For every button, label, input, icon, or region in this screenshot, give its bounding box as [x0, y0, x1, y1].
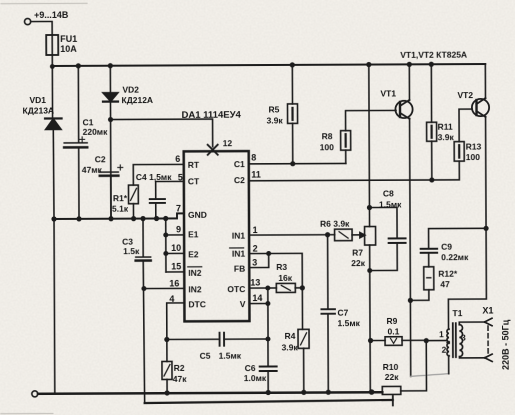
svg-text:R3: R3 [276, 262, 287, 272]
pin number labels right [250, 153, 263, 304]
svg-text:C9: C9 [441, 242, 452, 252]
svg-text:E2: E2 [188, 249, 199, 259]
svg-text:FU1: FU1 [60, 34, 77, 44]
capacitor C2 47мк [82, 154, 123, 219]
resistor R4 3.9к [281, 288, 309, 395]
svg-text:FB: FB [234, 264, 245, 274]
svg-text:R6 3.9к: R6 3.9к [320, 219, 350, 229]
svg-text:C7: C7 [337, 308, 348, 318]
svg-text:C5: C5 [200, 351, 211, 361]
svg-text:1.5мк: 1.5мк [379, 199, 402, 209]
svg-text:R2: R2 [174, 363, 185, 373]
wire pin 1 IN1 line [249, 234, 334, 236]
capacitor C7 1.5мк [321, 232, 361, 395]
svg-text:E1: E1 [188, 229, 199, 239]
svg-text:1: 1 [253, 225, 258, 235]
svg-text:3: 3 [461, 333, 466, 343]
wire pin 4 DTC column [164, 303, 184, 342]
resistor R7 22к (adjustable) [350, 62, 376, 395]
transistor VT1 [380, 62, 413, 301]
wire VT2 emitter down to transformer [448, 228, 486, 329]
svg-text:16к: 16к [278, 273, 292, 283]
svg-text:VD1: VD1 [29, 95, 46, 105]
wire second bottom rail [145, 396, 393, 407]
svg-text:VD2: VD2 [122, 85, 139, 95]
svg-text:0.22мк: 0.22мк [441, 252, 469, 262]
svg-text:R1*: R1* [113, 193, 128, 203]
svg-text:220В - 50Гц: 220В - 50Гц [500, 319, 510, 370]
svg-text:3.9к: 3.9к [267, 115, 284, 125]
resistor R13 100 [432, 109, 482, 180]
capacitor C6 1.0мк [244, 336, 277, 395]
resistor R11 3.9к [426, 62, 454, 183]
wire pins 2,3 bracket [249, 251, 302, 288]
svg-text:VT2: VT2 [457, 90, 473, 100]
svg-text:R12*: R12* [438, 269, 458, 279]
svg-text:C1: C1 [234, 159, 245, 169]
svg-text:КД212А: КД212А [121, 95, 153, 105]
resistor R2 47к [162, 339, 187, 395]
svg-text:5.1к: 5.1к [112, 204, 129, 214]
svg-text:C2: C2 [234, 175, 245, 185]
svg-text:1.5мк: 1.5мк [337, 318, 360, 328]
svg-text:100: 100 [466, 152, 480, 162]
svg-text:13: 13 [250, 278, 260, 288]
resistor R10 22к [382, 341, 426, 395]
svg-text:47мк: 47мк [82, 165, 103, 175]
fuse FU1 10A [46, 34, 77, 67]
svg-text:OTC: OTC [227, 284, 245, 294]
svg-text:GND: GND [188, 210, 207, 220]
svg-text:R5: R5 [268, 104, 279, 114]
svg-text:DTC: DTC [188, 299, 206, 309]
svg-text:R8: R8 [322, 131, 333, 141]
svg-text:15: 15 [171, 261, 181, 271]
svg-text:+9...14В: +9...14В [34, 10, 69, 20]
resistor R3 16к [249, 262, 305, 293]
svg-text:IN2: IN2 [188, 284, 202, 294]
svg-text:1.5мк: 1.5мк [219, 351, 242, 361]
capacitor C4 1.5мк (pin 5 CT) [136, 172, 184, 221]
node fuse to rail junction [50, 64, 55, 69]
svg-text:IN2: IN2 [188, 268, 202, 278]
svg-text:C6: C6 [245, 363, 256, 373]
resistor R6 3.9к [320, 219, 365, 241]
resistor R8 100 [320, 110, 397, 163]
node VT1 emitter / R12 junction [408, 298, 413, 303]
capacitor C3 1.5к [122, 219, 151, 404]
resistor R1* 5.1к [112, 164, 184, 221]
svg-text:7: 7 [176, 203, 181, 213]
svg-text:47: 47 [440, 279, 450, 289]
svg-text:10: 10 [171, 243, 181, 253]
svg-text:V: V [240, 299, 246, 309]
svg-text:3.9к: 3.9к [438, 132, 455, 142]
svg-text:5: 5 [178, 172, 183, 182]
svg-text:14: 14 [252, 293, 262, 303]
svg-text:12: 12 [223, 138, 233, 148]
svg-text:R4: R4 [285, 331, 296, 341]
wire VD1 column to bottom rail [53, 219, 56, 393]
svg-text:RT: RT [188, 160, 200, 170]
wire input to fuse [31, 21, 52, 35]
transformer T1 [439, 308, 486, 358]
svg-text:DA1 1114ЕУ4: DA1 1114ЕУ4 [182, 110, 242, 121]
svg-text:R10: R10 [383, 362, 399, 372]
svg-text:C4 1,5мк: C4 1,5мк [136, 172, 172, 182]
svg-text:1.5к: 1.5к [123, 246, 140, 256]
resistor R9 0.1 [370, 316, 428, 346]
svg-text:C8: C8 [383, 188, 394, 198]
wire pin 16 to C3 column [141, 286, 184, 291]
svg-text:R7: R7 [352, 248, 363, 258]
svg-text:C2: C2 [95, 154, 106, 164]
wire pin 8 C1 line [249, 162, 346, 164]
node VD2 to pin12 junction [108, 117, 113, 122]
svg-text:2: 2 [442, 345, 447, 355]
svg-text:22к: 22к [351, 258, 365, 268]
connector X1 220В 50Гц [482, 305, 510, 370]
svg-text:8: 8 [251, 153, 256, 163]
node VT2 emitter junction [483, 226, 488, 231]
svg-text:X1: X1 [482, 305, 493, 315]
svg-text:22к: 22к [385, 372, 399, 382]
pin number labels left [169, 154, 182, 304]
svg-text:6: 6 [175, 154, 180, 164]
svg-text:47к: 47к [173, 374, 187, 384]
transistor VT2 [457, 64, 489, 228]
wire +12V top rail [52, 64, 485, 66]
node +9...14V input terminal [24, 10, 68, 25]
svg-text:VT1: VT1 [380, 88, 396, 98]
svg-text:2: 2 [253, 244, 258, 254]
diode VD1 КД213А [22, 67, 62, 219]
wire pin 11 C2 line [249, 179, 432, 182]
wire R9 to transformer centre tap [426, 339, 447, 341]
wire bottom ground rail [38, 392, 382, 394]
node 0V bottom terminal [32, 391, 38, 397]
svg-text:0.1: 0.1 [388, 326, 400, 336]
svg-text:10А: 10А [60, 44, 77, 54]
svg-text:11: 11 [251, 170, 261, 180]
svg-text:КД213А: КД213А [23, 105, 55, 115]
svg-text:CT: CT [188, 176, 200, 186]
wire pins 9,10,15 common column [163, 218, 184, 272]
wire GND rail (mid) [51, 213, 184, 221]
svg-text:220мк: 220мк [83, 127, 109, 137]
svg-text:9: 9 [176, 224, 181, 234]
svg-text:R9: R9 [386, 316, 397, 326]
svg-text:VT1,VT2 КТ825А: VT1,VT2 КТ825А [400, 50, 467, 60]
svg-text:3: 3 [252, 258, 257, 268]
resistor R5 3.9к [266, 62, 297, 166]
capacitor C8 1.5мк [369, 188, 405, 270]
capacitor C5 1.5мк [167, 333, 268, 361]
capacitor C1 220мк [64, 63, 109, 219]
svg-text:IN1: IN1 [232, 231, 246, 241]
wire supply to DA1 pin 12 [111, 119, 233, 155]
svg-text:100: 100 [320, 142, 334, 152]
svg-text:R13: R13 [466, 142, 482, 152]
svg-text:3.9к: 3.9к [282, 342, 299, 352]
diode VD2 КД212А [103, 63, 154, 219]
capacitor C9 0.22мк [421, 228, 487, 262]
wire pins 13,14 column to C6 [249, 288, 270, 339]
svg-text:R11: R11 [438, 122, 453, 132]
svg-text:IN1: IN1 [232, 249, 246, 259]
svg-text:T1: T1 [452, 308, 462, 318]
wire VT1 emitter to winding 2 [410, 300, 448, 376]
svg-text:1: 1 [439, 329, 444, 339]
svg-text:1.0мк: 1.0мк [244, 373, 267, 383]
resistor R12* 47 [410, 253, 458, 300]
op-amp / PWM IC DA1 1114ЕУ4 [182, 110, 250, 322]
svg-text:16: 16 [169, 278, 179, 288]
